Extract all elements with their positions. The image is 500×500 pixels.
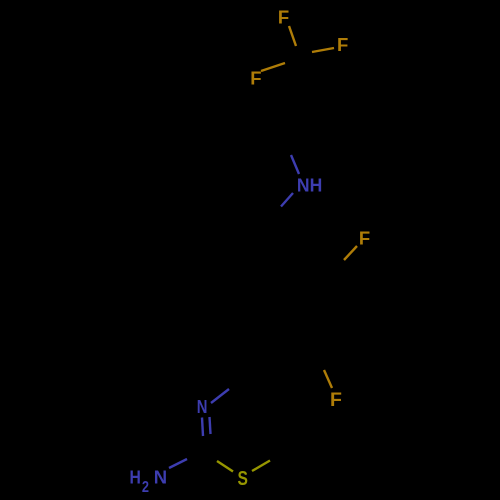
- bond C2-S half: [217, 461, 233, 472]
- bond S-C6 half: [252, 461, 270, 472]
- bond C-F right (CF3): [312, 48, 334, 52]
- svg-text:F: F: [337, 34, 348, 55]
- bond CH2-NH upper half: [291, 155, 299, 174]
- bond C-F top (CF3): [289, 26, 296, 46]
- bond aryl C-F lower: [324, 370, 332, 388]
- double bond N=C2 line 2: [210, 417, 211, 434]
- svg-text:NH: NH: [297, 175, 322, 196]
- svg-text:F: F: [359, 227, 370, 248]
- svg-text:S: S: [237, 467, 247, 489]
- double bond N=C2 line 1: [202, 418, 203, 437]
- svg-text:N: N: [197, 396, 208, 417]
- bond aryl C-F right: [344, 246, 357, 260]
- bond N-C4 ring: [211, 389, 229, 403]
- svg-text:2: 2: [142, 479, 149, 497]
- bond NH-C lower half: [281, 193, 293, 207]
- bond C-F left (CF3): [261, 63, 285, 71]
- svg-text:F: F: [330, 389, 342, 411]
- svg-text:N: N: [154, 466, 167, 487]
- svg-text:H: H: [130, 466, 141, 488]
- svg-text:F: F: [250, 68, 261, 89]
- bond H2N-C2 half: [169, 459, 187, 468]
- svg-text:F: F: [278, 7, 289, 28]
